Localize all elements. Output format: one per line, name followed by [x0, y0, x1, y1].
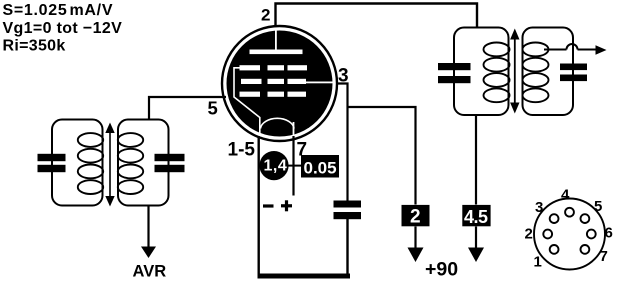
IF transformer T1 primary coil L1: [78, 133, 103, 194]
svg-text:4.5: 4.5: [464, 207, 488, 227]
wire T2 primary bottom to box 4.5: [475, 115, 477, 205]
svg-text:1-5: 1-5: [228, 140, 256, 161]
svg-text:6: 6: [605, 225, 613, 242]
IF transformer T2 primary coil L3: [484, 43, 510, 103]
wire AVR lead down from T1 secondary bottom: [147, 206, 149, 249]
svg-text:0.05: 0.05: [304, 159, 337, 178]
svg-text:Vg1=0 tot −12V: Vg1=0 tot −12V: [3, 20, 123, 37]
IF transformer T2 secondary loop: [523, 28, 574, 116]
wire anode top: pin 2 of V1 up and right to T2 primary: [276, 4, 478, 29]
tube socket outline: [534, 199, 605, 270]
svg-text:2: 2: [261, 6, 270, 25]
label 0.05 A: [301, 155, 339, 178]
battery B1 1,4 V: [259, 151, 288, 180]
label box 2 (mA): [402, 205, 430, 228]
svg-text:+90: +90: [425, 259, 458, 281]
socket pin 3: [535, 199, 558, 223]
grid row g3 (top): [240, 65, 308, 70]
anode (plate) of V1: [250, 31, 303, 55]
socket pin 1: [534, 245, 559, 271]
grid side-rod bracket to pin 5: [234, 68, 260, 137]
wire output tap with hop over secondary: [544, 44, 596, 50]
cathode lead pin 7 (inside): [293, 122, 295, 137]
arrow to +90: [408, 248, 424, 263]
IF transformer T1 secondary loop: [118, 120, 169, 206]
wire battery return bottom: [258, 219, 351, 279]
wire below box 4.5: [475, 227, 477, 250]
svg-text:S=1.025 mA/V: S=1.025 mA/V: [3, 2, 114, 19]
arrow below 4.5: [468, 248, 484, 263]
polarity plus: [281, 200, 292, 211]
socket pin 7: [581, 245, 608, 265]
IF transformer T1 secondary coil L2: [118, 133, 143, 194]
svg-text:4: 4: [561, 187, 570, 204]
wire filament lead pin 7: [292, 136, 294, 196]
wire link battery to 0.05 label: [288, 165, 302, 167]
svg-text:7: 7: [600, 248, 608, 265]
svg-text:5: 5: [208, 98, 218, 119]
svg-text:5: 5: [594, 198, 602, 215]
capacitor C3: [334, 201, 362, 220]
capacitor C2: [155, 154, 185, 172]
IF transformer T1 primary loop: [52, 120, 103, 206]
label box 4.5 (mA): [462, 205, 490, 227]
svg-text:2: 2: [525, 226, 533, 243]
tube V1 envelope: [222, 26, 337, 141]
arrow to AVR: [141, 247, 156, 259]
IF transformer T2 primary loop: [454, 28, 509, 116]
grid row g1 (bottom): [240, 92, 307, 97]
wire filament lead pins 1-5 down to battery loop: [258, 136, 260, 276]
arrow output: [596, 45, 607, 54]
tuning arrow of T1: [105, 123, 114, 207]
socket pin 4: [561, 187, 574, 217]
socket pin 2: [525, 226, 553, 243]
wire screen feed to box 2: [348, 107, 416, 205]
svg-text:1: 1: [534, 254, 542, 271]
wire below box 2: [414, 227, 416, 250]
svg-text:3: 3: [535, 199, 543, 216]
cathode of V1: [261, 118, 295, 128]
wire anode lead pin 3 right and down: [337, 84, 348, 202]
capacitor C4: [438, 63, 471, 83]
polarity minus: [263, 204, 274, 207]
capacitor C1: [38, 154, 66, 172]
socket pin 5: [581, 198, 603, 223]
svg-text:Ri=350k: Ri=350k: [3, 38, 66, 55]
tuning arrow of T2: [510, 29, 519, 114]
svg-text:1,4: 1,4: [264, 158, 288, 175]
socket pin 6: [587, 225, 613, 242]
svg-text:AVR: AVR: [133, 263, 167, 281]
capacitor C5: [560, 64, 587, 82]
wire grid input: T1 secondary top to tube pin 5: [149, 97, 226, 120]
svg-text:2: 2: [410, 207, 421, 228]
grid row g2 (middle, to pin 3): [241, 79, 333, 84]
IF transformer T2 secondary coil L4: [523, 43, 549, 103]
